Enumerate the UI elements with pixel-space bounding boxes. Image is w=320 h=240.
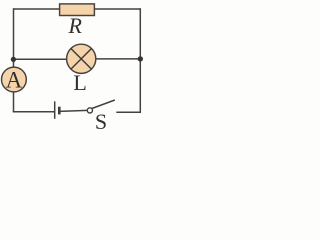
node: junction dot left <box>11 57 16 62</box>
ammeter A <box>2 67 27 92</box>
battery cell: long positive plate <box>54 101 56 119</box>
wire: top rail from top-left corner to top-right corner <box>14 8 141 10</box>
wire: bottom right stub from switch to right rail <box>116 111 141 113</box>
wire: battery to switch hinge <box>59 110 87 111</box>
lamp L (circle with X) <box>67 44 96 73</box>
wire: bottom left segment to battery <box>13 111 55 113</box>
node: junction dot right <box>138 56 143 61</box>
wire: middle branch from left node to lamp <box>13 58 67 60</box>
label A (meter face letter) <box>6 68 23 93</box>
label L <box>73 70 86 95</box>
resistor R <box>60 4 95 16</box>
wire: middle branch from lamp to right node <box>96 58 141 60</box>
svg-text:R: R <box>67 13 82 38</box>
switch S: hinge circle <box>87 108 92 113</box>
switch S: blade <box>92 100 115 109</box>
label R <box>67 13 82 38</box>
svg-text:L: L <box>73 70 86 95</box>
wire: left rail lower (ammeter bottom to bottom-left corner) <box>13 92 15 113</box>
battery cell: short thick negative plate <box>58 107 61 115</box>
svg-text:A: A <box>6 68 23 93</box>
svg-text:S: S <box>95 109 107 130</box>
label S <box>95 109 107 134</box>
wire: right rail vertical <box>139 8 141 112</box>
wire: left rail upper (top corner down to node, ammeter top) <box>13 8 15 67</box>
